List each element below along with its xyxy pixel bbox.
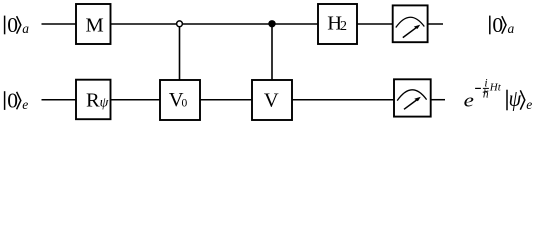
ket bar xyxy=(506,90,508,111)
control open circle (anti-control) on top wire xyxy=(177,21,183,27)
svg-text:2: 2 xyxy=(340,19,347,34)
svg-text:V: V xyxy=(264,89,279,111)
svg-text:a: a xyxy=(508,21,515,36)
svg-text:ψ: ψ xyxy=(509,86,522,111)
wire bottom qubit: V to meter xyxy=(292,99,394,101)
node |0>_a (left, ancilla input) xyxy=(5,13,30,37)
wire top qubit: M to H2 (passes controls) xyxy=(111,23,319,25)
wire bottom qubit: V0 to V xyxy=(200,99,252,101)
svg-text:M: M xyxy=(85,15,103,37)
svg-text:e: e xyxy=(22,97,28,112)
wire bottom qubit: R_psi to V0 xyxy=(111,99,161,101)
gate M (measurement basis box) xyxy=(76,4,111,44)
svg-text:h: h xyxy=(483,89,489,101)
wire top qubit: input stub to gate M xyxy=(42,23,77,25)
node |0>_a (right, ancilla output) xyxy=(490,13,515,37)
svg-text:a: a xyxy=(22,21,29,36)
svg-text:e: e xyxy=(464,90,474,111)
wire bottom qubit: meter output stub xyxy=(431,99,445,101)
gate V (controlled-V, filled control) xyxy=(252,80,292,120)
svg-text:0: 0 xyxy=(182,98,188,110)
exponent fraction bar xyxy=(483,87,489,89)
svg-text:ψ: ψ xyxy=(100,96,109,111)
svg-text:e: e xyxy=(526,97,532,112)
svg-text:i: i xyxy=(484,77,487,89)
wire top qubit: H2 to meter xyxy=(357,23,393,25)
gate H2 (Hadamard) xyxy=(318,4,357,44)
gate R_psi (state preparation) xyxy=(76,80,111,120)
wire bottom qubit: input stub to R_psi xyxy=(42,99,77,101)
svg-text:R: R xyxy=(86,90,100,112)
wire control vertical: open control to V0 xyxy=(179,24,181,80)
wire top qubit: meter output stub xyxy=(428,23,443,25)
svg-text:Ht: Ht xyxy=(489,81,502,93)
gate V0 (controlled-V0, open control) xyxy=(160,80,200,120)
wire control vertical: filled control to V xyxy=(271,24,273,80)
control filled dot on top wire xyxy=(268,20,275,27)
meter bottom (measurement on eigenstate register) xyxy=(394,79,431,116)
exponent minus sign xyxy=(475,87,481,89)
node |0>_e (left, eigenstate input) xyxy=(5,88,29,112)
meter top (measurement on ancilla) xyxy=(393,5,428,42)
ket angle bracket xyxy=(520,90,525,109)
node e^(-iHt/hbar)|psi>_e (right, evolved eigenstate output) xyxy=(464,77,533,111)
